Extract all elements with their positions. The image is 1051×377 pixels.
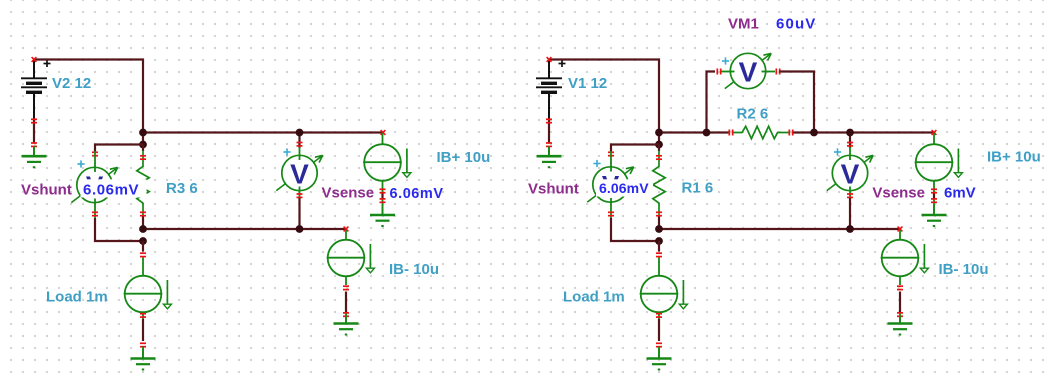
ground IB- right bbox=[888, 314, 913, 335]
svg-text:Load 1m: Load 1m bbox=[46, 289, 108, 306]
pin R2 left bbox=[728, 130, 733, 136]
svg-text:6mV: 6mV bbox=[944, 184, 976, 201]
wire R1 top lead bbox=[658, 145, 660, 152]
pin Load bottom bbox=[140, 313, 146, 318]
lead IB- top bbox=[345, 230, 347, 240]
node J7 bbox=[655, 225, 663, 233]
svg-text:R3 6: R3 6 bbox=[166, 180, 198, 197]
pin R3 top bbox=[140, 155, 146, 160]
svg-text:Vsense: Vsense bbox=[872, 185, 925, 202]
wire V meter bottom bbox=[298, 198, 300, 229]
lead VM1 left bbox=[722, 71, 735, 73]
pin VM1 left bbox=[716, 69, 721, 75]
lead V meter2 bottom bbox=[849, 187, 851, 199]
lead Load2 bottom bbox=[658, 312, 660, 319]
label IB- 10u right bbox=[939, 261, 989, 278]
pin IB+ top bbox=[381, 130, 386, 135]
node VM1 left bbox=[703, 129, 711, 137]
pin IB+ ground bbox=[380, 198, 386, 203]
pin IB-2 top bbox=[898, 227, 903, 232]
lead Load2 ground bbox=[658, 347, 660, 359]
pin Load top bbox=[140, 252, 146, 257]
label Vsense right bbox=[872, 185, 925, 202]
label V2 12 bbox=[52, 75, 91, 92]
label Vsense bbox=[322, 185, 375, 202]
wire top rail right B bbox=[794, 131, 935, 133]
svg-text:V2 12: V2 12 bbox=[52, 75, 91, 92]
value Vshunt 6.06mV bbox=[81, 179, 147, 198]
pin V meter2 top bbox=[847, 142, 853, 147]
node J3 bbox=[139, 225, 147, 233]
value Vsense 6mV bbox=[944, 184, 976, 201]
pin R1 top bbox=[656, 155, 662, 160]
pin Vshunt2 bottom bbox=[608, 211, 614, 216]
svg-text:R2 6: R2 6 bbox=[737, 106, 769, 123]
current source IB+ left bbox=[363, 144, 411, 181]
lead IB- bottom bbox=[345, 276, 347, 285]
svg-text:R1 6: R1 6 bbox=[682, 180, 714, 197]
wire R1 bottom lead bbox=[658, 217, 660, 230]
lead IB+2 top bbox=[933, 133, 935, 145]
wire Vshunt bottom bbox=[95, 218, 143, 241]
svg-text:60uV: 60uV bbox=[776, 15, 816, 32]
pin Load ground bbox=[140, 342, 146, 347]
wire Load top bbox=[142, 241, 144, 252]
lead Load top bbox=[142, 258, 144, 277]
lead Load ground bbox=[142, 347, 144, 359]
wire battery V2 bottom bbox=[33, 118, 35, 143]
wire battery V1 top to node bbox=[549, 60, 659, 133]
pin battery V1 - bbox=[546, 118, 552, 123]
node J5 bbox=[655, 129, 663, 137]
ground Load right bbox=[647, 349, 672, 370]
label IB- 10u bbox=[389, 261, 439, 278]
lead Vshunt2 bottom bbox=[610, 198, 612, 218]
label Vshunt right bbox=[528, 181, 579, 198]
wire IB+ to ground bbox=[381, 193, 383, 200]
ground stub G1 bbox=[33, 147, 35, 157]
pin R3 bottom bbox=[140, 211, 146, 216]
wire VM1 left bbox=[707, 72, 716, 133]
lead IB-2 ground bbox=[899, 317, 901, 324]
svg-text:V: V bbox=[739, 57, 758, 88]
svg-text:V1 12: V1 12 bbox=[568, 75, 607, 92]
ground G1 bbox=[22, 146, 47, 167]
wire to Vshunt top bbox=[95, 145, 143, 152]
pin V meter top bbox=[297, 142, 303, 147]
wire top rail left bbox=[143, 131, 383, 133]
pin battery V1 + bbox=[547, 57, 552, 62]
pin IB+2 top bbox=[932, 130, 937, 135]
value Vsense 6.06mV bbox=[390, 186, 444, 202]
wire to Vshunt2 top bbox=[611, 145, 659, 152]
pin IB- top bbox=[344, 227, 349, 232]
wire bottom rail right bbox=[659, 228, 900, 230]
pin R1 bottom bbox=[656, 211, 662, 216]
pin IB-2 ground bbox=[897, 312, 903, 317]
voltmeter Vsense right bbox=[827, 155, 873, 190]
current source IB+ right bbox=[915, 144, 963, 181]
lead VM1 right bbox=[762, 71, 776, 73]
wire node to node bbox=[142, 133, 144, 145]
ground IB+ right bbox=[922, 205, 947, 226]
label R3 6 bbox=[166, 180, 198, 197]
wire IB-2 to ground bbox=[899, 292, 901, 313]
svg-text:6.06mV: 6.06mV bbox=[390, 186, 444, 202]
svg-text:IB+ 10u: IB+ 10u bbox=[987, 149, 1041, 166]
lead Vshunt bottom bbox=[94, 199, 96, 219]
lead V meter top bbox=[299, 147, 301, 160]
wire R3 top lead bbox=[142, 145, 144, 152]
wire IB+2 to ground bbox=[933, 193, 935, 200]
svg-text:Vshunt: Vshunt bbox=[21, 182, 72, 199]
battery V1 bbox=[536, 60, 566, 119]
lead IB+ ground bbox=[382, 200, 384, 216]
ground stub G2 bbox=[548, 147, 550, 157]
pin Vshunt bottom bbox=[92, 211, 98, 216]
wire Load to ground bbox=[142, 319, 144, 341]
wire battery V1 bottom bbox=[548, 118, 550, 143]
pin battery V2 + bbox=[32, 57, 37, 62]
lead Load bottom bbox=[142, 312, 144, 319]
lead Load2 top bbox=[658, 258, 660, 277]
pin ground G1 bbox=[31, 142, 37, 147]
svg-text:Vsense: Vsense bbox=[322, 185, 375, 202]
pin IB+2 ground bbox=[931, 198, 937, 203]
svg-text:VM1: VM1 bbox=[728, 15, 759, 32]
current source Load left bbox=[124, 276, 172, 313]
label V1 12 bbox=[568, 75, 607, 92]
pin Load2 top bbox=[656, 252, 662, 257]
ground G2 bbox=[537, 146, 562, 167]
wire V meter top bbox=[298, 133, 300, 149]
wire V meter2 bottom bbox=[849, 198, 851, 229]
svg-text:IB+ 10u: IB+ 10u bbox=[437, 149, 491, 166]
wire node to node right bbox=[658, 133, 660, 145]
lead V meter2 top bbox=[849, 147, 851, 160]
pin V meter2 bottom bbox=[847, 193, 853, 198]
label Vshunt bbox=[21, 182, 72, 199]
wire top rail right A bbox=[659, 131, 729, 133]
pin Load2 bottom bbox=[656, 313, 662, 318]
wire Load2 top bbox=[658, 241, 660, 252]
pin R2 right bbox=[788, 130, 793, 136]
node V meter top bbox=[296, 129, 304, 137]
svg-text:IB- 10u: IB- 10u bbox=[939, 261, 989, 278]
lead Vshunt2 top bbox=[610, 151, 612, 172]
label R1 6 bbox=[682, 180, 714, 197]
pin IB- bottom bbox=[343, 285, 349, 290]
lead V meter bottom bbox=[299, 187, 301, 199]
node J8 bbox=[655, 237, 663, 245]
pin IB- ground bbox=[343, 312, 349, 317]
label Load 1m bbox=[46, 289, 108, 306]
voltmeter Vshunt right bbox=[587, 167, 633, 202]
svg-text:V: V bbox=[841, 159, 860, 190]
voltmeter VM1 bbox=[725, 53, 771, 88]
label VM1 bbox=[728, 15, 759, 32]
pin IB+ bottom bbox=[380, 188, 386, 193]
node J1 bbox=[139, 129, 147, 137]
pin IB-2 bottom bbox=[897, 285, 903, 290]
svg-text:6.06mV: 6.06mV bbox=[83, 182, 139, 199]
value VM1 60uV bbox=[776, 15, 816, 32]
lead IB+ top bbox=[382, 133, 384, 145]
pin IB+2 bottom bbox=[931, 188, 937, 193]
pin Vshunt top bbox=[92, 151, 98, 156]
node V meter2 bottom bbox=[846, 225, 854, 233]
pin VM1 right bbox=[775, 69, 780, 75]
wire Load2 to ground bbox=[658, 319, 660, 341]
ground Load left bbox=[131, 349, 156, 370]
ground IB- left bbox=[334, 314, 359, 335]
lead IB+2 bottom bbox=[933, 181, 935, 193]
current source Load right bbox=[640, 276, 688, 313]
wire Vshunt2 bottom bbox=[611, 218, 659, 241]
node V meter bottom bbox=[296, 225, 304, 233]
node J2 bbox=[139, 141, 147, 149]
label IB+ 10u right bbox=[987, 149, 1041, 166]
resistor R1 bbox=[653, 151, 665, 217]
battery V2 bbox=[21, 60, 51, 119]
label Load 1m right bbox=[563, 289, 625, 306]
wire battery V2 top to node bbox=[34, 60, 143, 133]
pin ground G2 bbox=[546, 142, 552, 147]
ground IB+ left bbox=[370, 205, 395, 226]
pin battery V2 - bbox=[31, 118, 37, 123]
wire VM1 right bbox=[780, 72, 815, 133]
lead IB-2 bottom bbox=[899, 276, 901, 285]
node V meter2 top bbox=[846, 129, 854, 137]
voltmeter Vsense left bbox=[276, 155, 322, 190]
current source IB- right bbox=[881, 240, 929, 277]
pin Vshunt2 top bbox=[608, 151, 614, 156]
svg-text:Vshunt: Vshunt bbox=[528, 181, 579, 198]
resistor R2 bbox=[734, 126, 789, 138]
lead IB- ground bbox=[345, 317, 347, 324]
value Vshunt2 6.06mV bbox=[596, 179, 653, 196]
wire R3 bottom lead bbox=[142, 217, 144, 230]
label R2 6 bbox=[737, 106, 769, 123]
wire IB- to ground bbox=[345, 292, 347, 313]
label IB+ 10u bbox=[437, 149, 491, 166]
lead IB-2 top bbox=[899, 230, 901, 240]
node VM1 right bbox=[810, 129, 818, 137]
pin Load2 ground bbox=[656, 342, 662, 347]
svg-text:6.06mV: 6.06mV bbox=[599, 180, 649, 196]
svg-text:IB- 10u: IB- 10u bbox=[389, 261, 439, 278]
wire bottom rail left bbox=[143, 228, 346, 230]
pin V meter bottom bbox=[297, 193, 303, 198]
voltmeter Vshunt bbox=[71, 167, 117, 202]
lead IB+2 ground bbox=[933, 200, 935, 216]
current source IB- left bbox=[327, 240, 375, 277]
wire V meter2 top bbox=[849, 133, 851, 149]
node J6 bbox=[655, 141, 663, 149]
resistor R3 bbox=[137, 151, 149, 217]
lead IB+ bottom bbox=[382, 181, 384, 193]
svg-text:V: V bbox=[290, 159, 309, 190]
node J4 bbox=[139, 237, 147, 245]
svg-text:Load 1m: Load 1m bbox=[563, 289, 625, 306]
lead Vshunt top bbox=[94, 151, 96, 172]
